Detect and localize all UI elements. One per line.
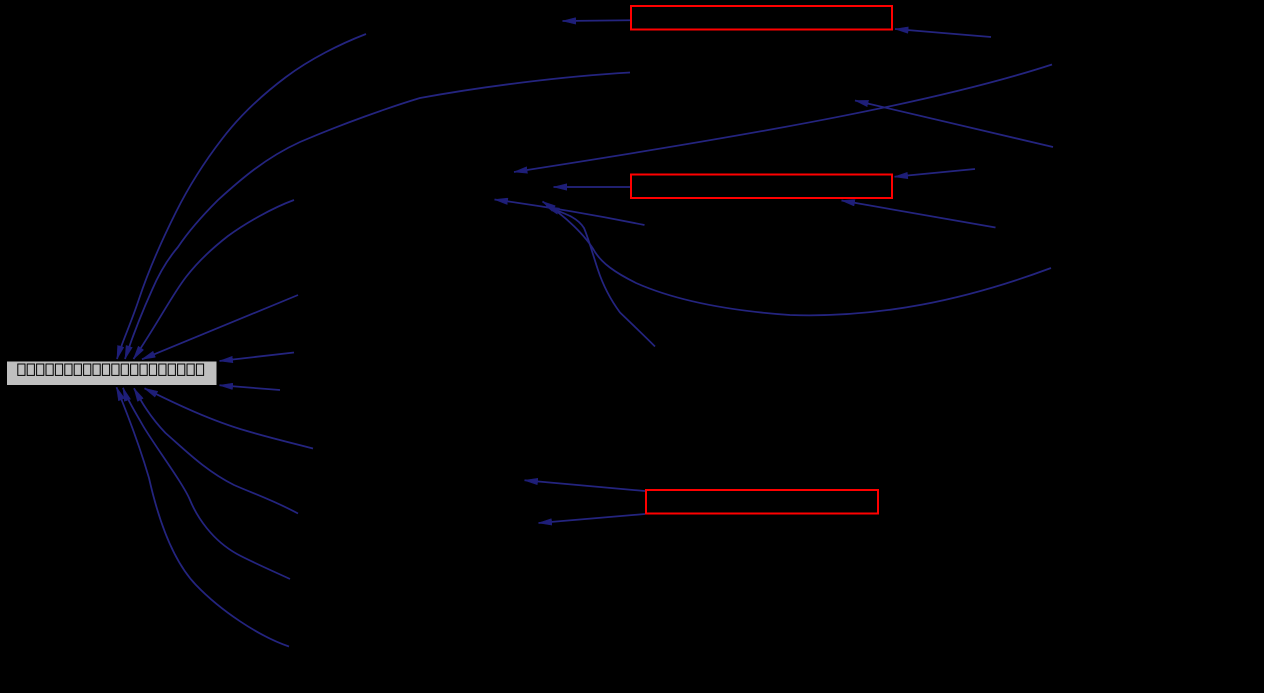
wire edge e22: right node to arrow at 853,100 (855, 101, 1053, 148)
wire edge e21: curve D4 from 289,646 into node bottom (117, 387, 290, 646)
wire edge e10: red box 3 top-left arrow (525, 480, 646, 491)
wire edge e13: long arc B from 630,72 into node top (125, 73, 630, 360)
wire edge e9: curve from 655,346 to bundle (546, 207, 655, 347)
wire edge e19: curve D2 from 298,513 into node bottom (134, 388, 298, 513)
wire edge e6: lower right node into red box 2 bottom (842, 201, 996, 228)
wire edge e18: curve D1 from 313,448 into node bottom (145, 388, 314, 448)
wire edge e4: red box 2 to left node (554, 186, 631, 188)
node: red box 2 (middle) (631, 175, 892, 199)
wire edge e7: node at 645,225 to left arrow (495, 200, 645, 226)
wire edge e2: right node into red box 1 (895, 29, 991, 37)
wire edge e5: right node into red box 2 (895, 169, 976, 177)
node: gray central node box (7, 361, 218, 386)
wire edge e17: short line into node right bottom (220, 385, 281, 390)
node: red box 3 (lower) (646, 490, 878, 514)
wire edge e1: red box 1 to left node (563, 19, 631, 22)
wire edge e15: line from 297,294 into node top (142, 295, 298, 359)
wire edge e14: arc C from 294,200 into node top (134, 200, 295, 359)
wire edge e3: long shallow line from far right to left arrow (514, 65, 1052, 173)
wire edge e20: curve D3 from 290,579 into node bottom (123, 388, 290, 579)
tofu glyph row inside gray node (18, 364, 204, 375)
wire edge e16: short line into node right top (220, 353, 295, 362)
node: red box 1 (top) (631, 6, 892, 30)
wire edge e8: big swoosh from 1051,268 to bundle (543, 202, 1052, 316)
wire edge e12: long arc A from 365,34 into node top (117, 34, 366, 359)
wire edge e11: red box 3 bottom-left arrow (539, 514, 646, 523)
